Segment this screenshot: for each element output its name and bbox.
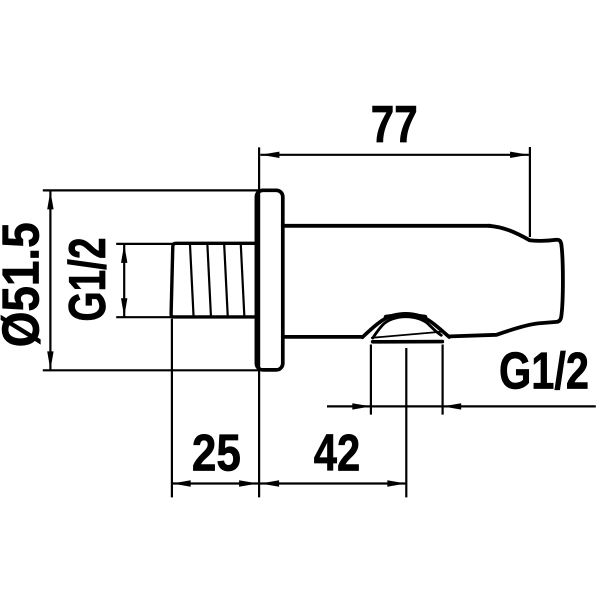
- outlet dome peak thickening: [386, 315, 425, 317]
- arrowhead 77 right: [510, 152, 528, 158]
- extension line: nipple bottom: [116, 316, 171, 318]
- dimension line 77: [260, 154, 529, 156]
- extension line: 25 left (nipple end): [171, 319, 173, 498]
- body top edge: [283, 224, 490, 228]
- arrowhead outlet left (points right): [352, 403, 371, 409]
- body right end (holder profile): [450, 226, 563, 337]
- arrowhead nipple dim bottom: [121, 298, 127, 317]
- outlet opening slanted edge: [372, 332, 443, 338]
- extension line: outlet left: [370, 345, 372, 415]
- extension line: flange face (shared by 77/25/42): [258, 147, 260, 497]
- extension line: nipple top: [116, 243, 172, 245]
- arrowhead diameter bottom: [47, 351, 53, 370]
- outlet boss inner arc: [373, 317, 442, 338]
- threaded nipple outline: [171, 243, 256, 317]
- arrowhead nipple dim top: [121, 244, 127, 263]
- dimension line 25 and 42: [172, 482, 406, 484]
- arrowhead diameter top: [47, 191, 53, 210]
- svg-text:42: 42: [314, 425, 361, 483]
- dimension line diameter 51.5: [49, 191, 51, 370]
- arrowhead outlet right (points left): [443, 403, 462, 409]
- svg-text:25: 25: [192, 425, 241, 483]
- extension line: 77 right: [529, 147, 531, 237]
- svg-text:Ø51.5: Ø51.5: [0, 222, 51, 347]
- arrowhead 42 left: [261, 480, 280, 486]
- dimension leader G1/2 outlet: [327, 405, 596, 407]
- extension line: outlet centerline / 42 right: [405, 348, 407, 497]
- arrowhead 42 right: [387, 480, 406, 486]
- dimension line nipple G1/2: [123, 244, 125, 316]
- svg-text:G1/2: G1/2: [59, 238, 117, 322]
- arrowhead 25 left: [172, 480, 191, 486]
- outlet boss outer dome: [363, 314, 450, 337]
- thread hatch lines: [190, 245, 244, 316]
- outlet lip bottom bar: [373, 340, 443, 344]
- arrowhead 25 right: [239, 480, 258, 486]
- svg-text:77: 77: [371, 96, 418, 154]
- arrowhead 77 left: [261, 152, 280, 158]
- extension line: diameter bottom: [43, 369, 260, 371]
- flange (wall rosette, side view): [256, 190, 282, 370]
- extension line: diameter top: [43, 189, 258, 191]
- body bottom edge (left of outlet boss): [283, 335, 362, 339]
- svg-text:G1/2: G1/2: [499, 343, 589, 401]
- extension line: outlet right: [442, 345, 444, 415]
